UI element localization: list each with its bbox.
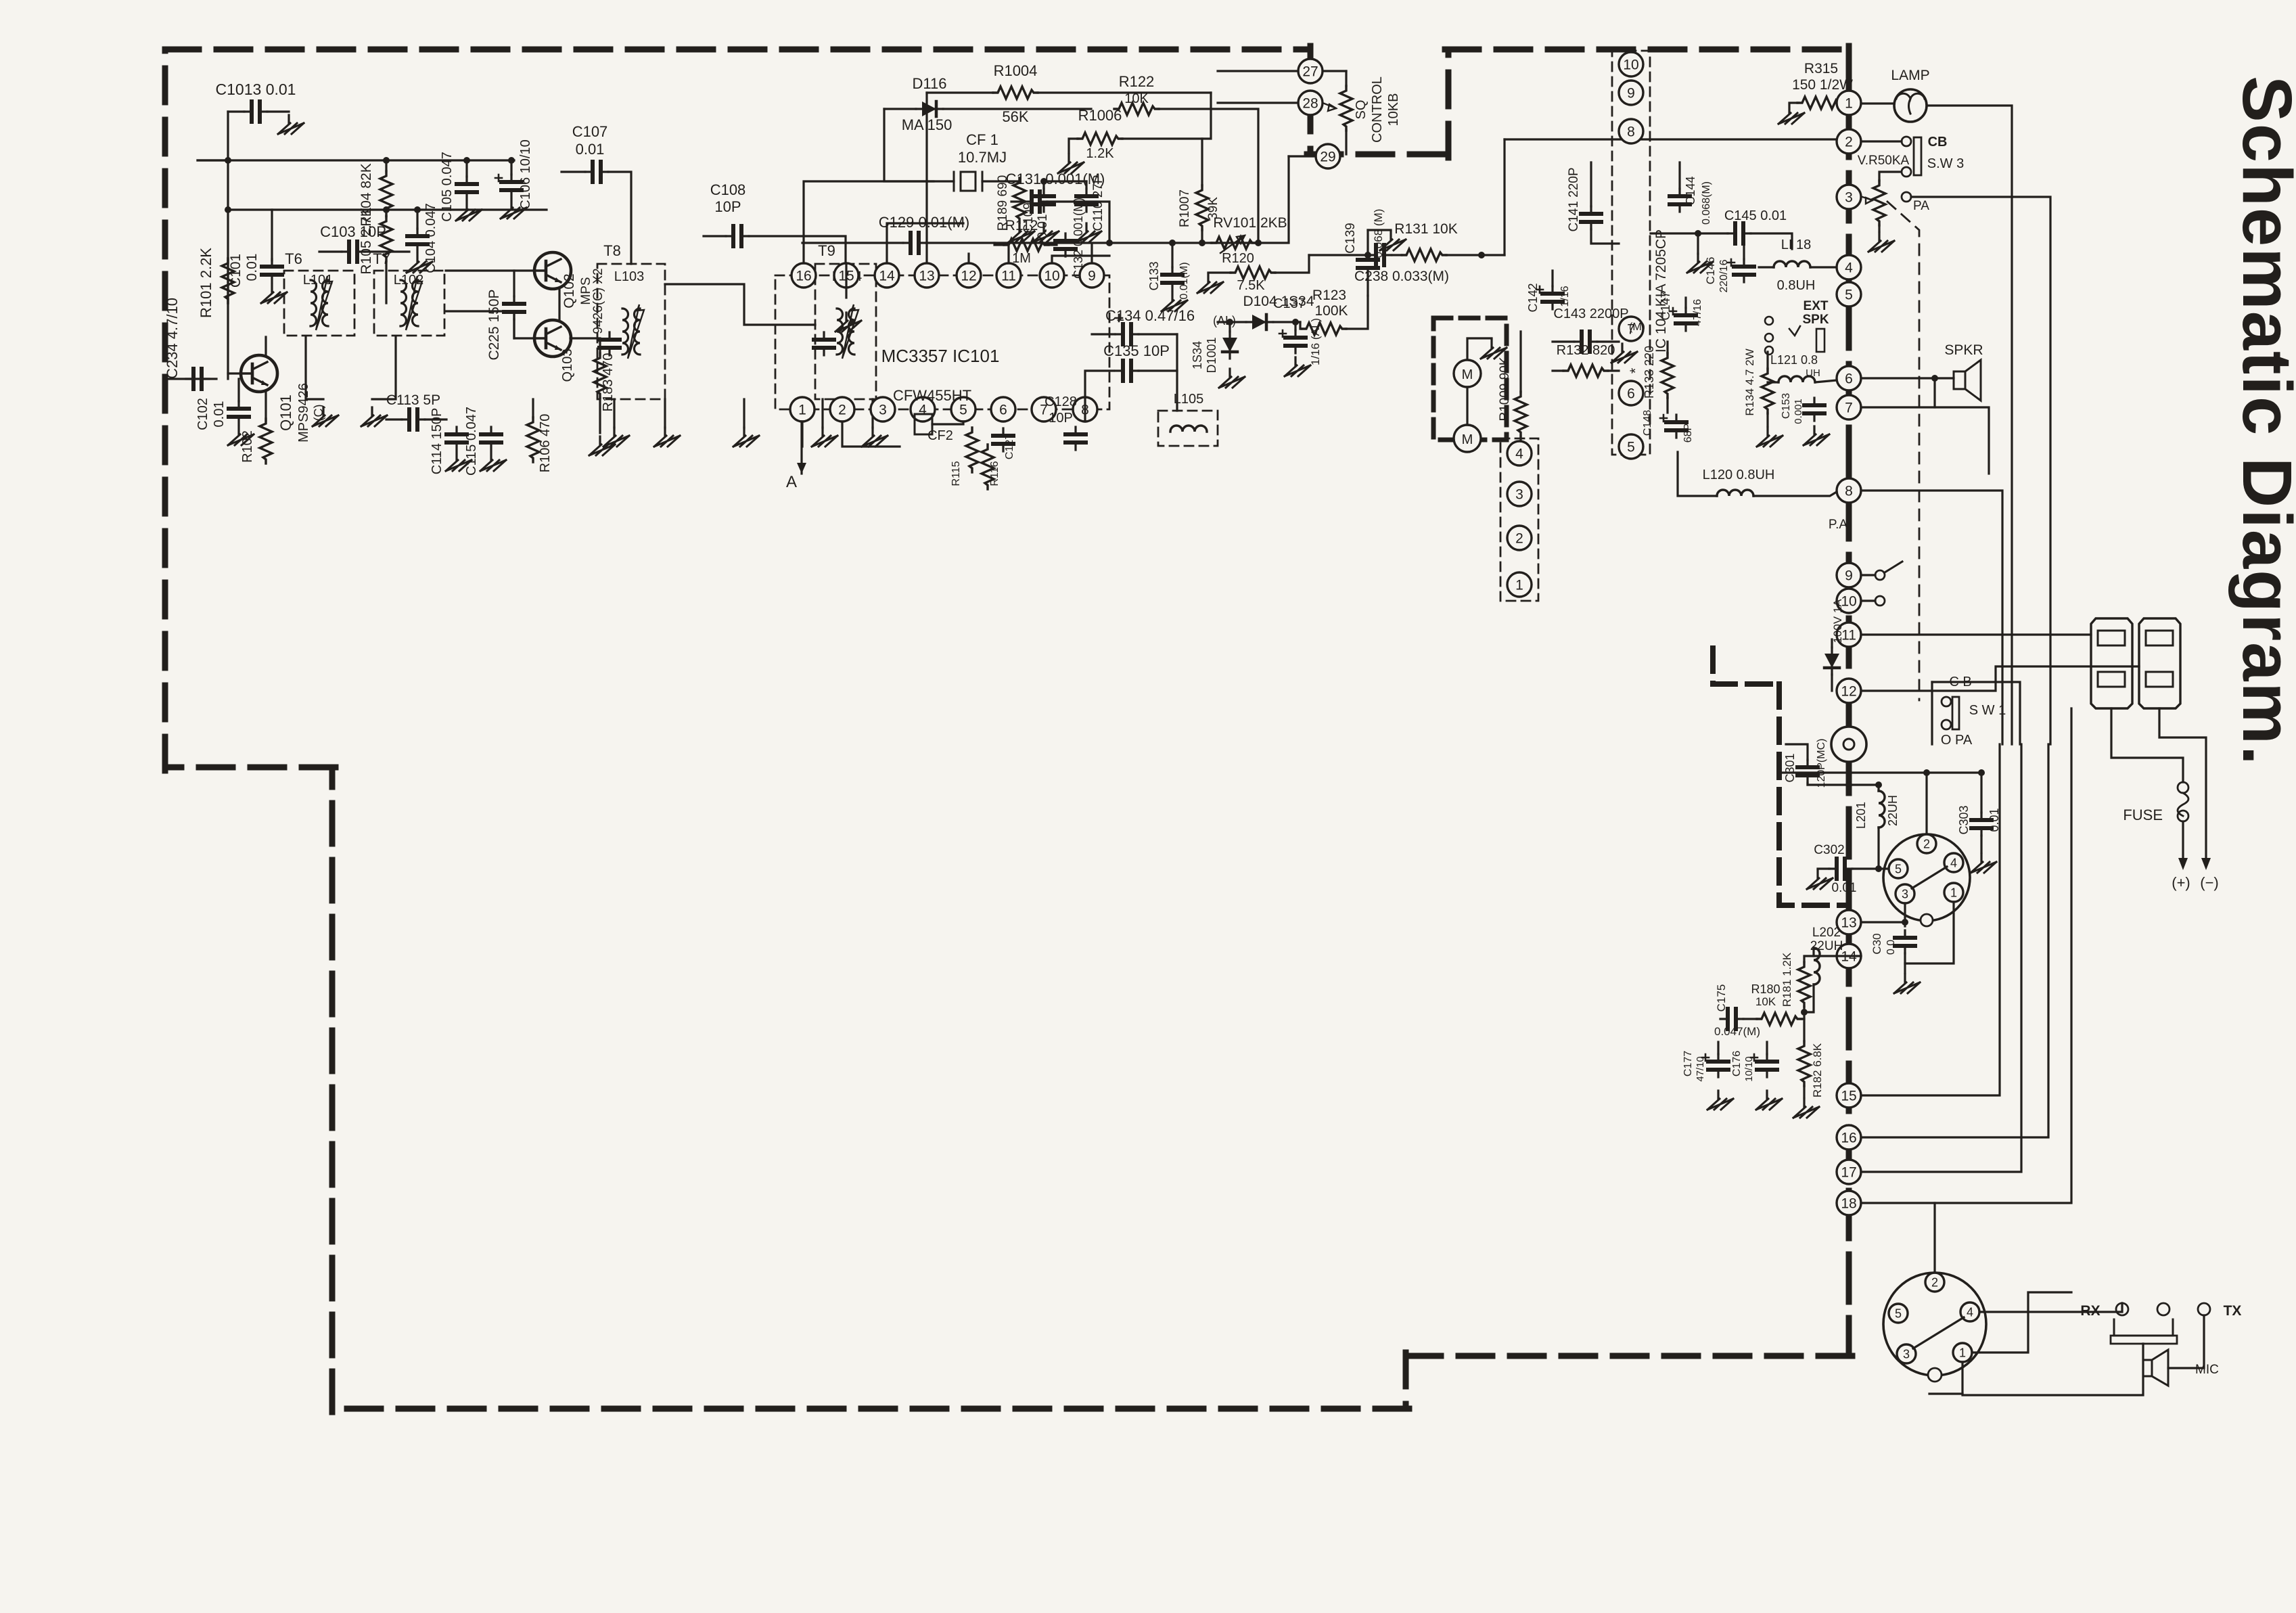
svg-text:MPS9426: MPS9426 xyxy=(296,383,311,442)
wire xyxy=(1345,71,1347,86)
wire xyxy=(1804,956,1814,962)
wire xyxy=(1933,378,1935,407)
wire xyxy=(1806,783,1808,785)
capacitor C109 body xyxy=(1034,189,1054,212)
wire xyxy=(1904,953,1906,973)
junction xyxy=(1978,769,1985,776)
capacitor C1013 body xyxy=(244,101,267,122)
PTT switch bar xyxy=(2114,1319,2173,1336)
wire L121 to 6 xyxy=(1815,380,1837,382)
resistor R106 body xyxy=(527,417,539,462)
connector plug 2 contact a xyxy=(2146,631,2173,645)
svg-text:R1004: R1004 xyxy=(994,62,1038,79)
svg-text:R132 820: R132 820 xyxy=(1557,343,1615,358)
svg-text:L102: L102 xyxy=(394,273,424,288)
svg-text:1: 1 xyxy=(1845,96,1853,112)
wire xyxy=(386,418,402,420)
svg-text:S W 1: S W 1 xyxy=(1969,703,2006,718)
board outline notch bottom xyxy=(1307,152,1448,158)
ground R134 xyxy=(1757,428,1783,447)
capacitor C304 body xyxy=(1895,930,1915,953)
svg-text:14: 14 xyxy=(879,269,895,284)
svg-text:R105 2.7K: R105 2.7K xyxy=(359,207,374,274)
svg-text:C301: C301 xyxy=(1783,753,1797,782)
ground C109 xyxy=(1033,223,1059,242)
svg-text:C141 220P: C141 220P xyxy=(1567,167,1581,231)
wire mic pin2 up xyxy=(1933,1203,1935,1273)
switch gang dashed link xyxy=(1887,202,1919,700)
ground T7 xyxy=(361,407,387,426)
diode D301 body xyxy=(1824,648,1839,675)
power connector pin 4 xyxy=(1944,853,1963,872)
wire to terminal 16 xyxy=(1861,744,2048,1137)
svg-text:PA: PA xyxy=(1913,199,1929,213)
resistor R104 body xyxy=(380,171,392,216)
wire xyxy=(1368,229,1391,231)
IC101 pin 7 xyxy=(1032,397,1056,422)
connector plug 2 shell xyxy=(2139,618,2180,708)
wire R122 to squelch xyxy=(1159,109,1258,243)
capacitor C129 xyxy=(903,233,926,253)
edge terminal 18 xyxy=(1837,1191,1861,1215)
wire from 8 xyxy=(1861,491,2002,744)
svg-text:SPK: SPK xyxy=(1802,313,1829,327)
wire to ground xyxy=(267,110,289,112)
wire xyxy=(1218,70,1298,72)
svg-text:1: 1 xyxy=(798,403,806,418)
svg-text:0.01: 0.01 xyxy=(1832,881,1857,895)
wire xyxy=(513,319,515,338)
board outline top-left run xyxy=(165,47,1310,53)
wire xyxy=(561,171,585,173)
svg-text:C137: C137 xyxy=(1273,296,1306,311)
svg-text:3: 3 xyxy=(1902,887,1908,901)
svg-text:EXT: EXT xyxy=(1804,299,1829,313)
svg-text:C114 150P: C114 150P xyxy=(430,408,444,475)
svg-text:C225 150P: C225 150P xyxy=(486,289,502,360)
svg-text:T6: T6 xyxy=(285,250,302,267)
svg-text:2: 2 xyxy=(1931,1275,1938,1289)
mic connector pin 4 xyxy=(1960,1302,1979,1321)
switch TX contact xyxy=(2198,1303,2210,1315)
electrolytic C147 xyxy=(1676,308,1696,331)
svg-text:8: 8 xyxy=(1845,484,1853,499)
wire xyxy=(1717,1042,1719,1054)
wire xyxy=(1044,180,1086,182)
wire xyxy=(385,160,387,171)
svg-text:RV101 2KB: RV101 2KB xyxy=(1213,215,1287,231)
capacitor C104 body xyxy=(407,229,428,252)
wire to terminal 18 xyxy=(1861,708,2071,1203)
resistor R1007 body xyxy=(1196,185,1208,230)
svg-text:3: 3 xyxy=(1515,487,1523,503)
wire xyxy=(1229,322,1231,332)
junction xyxy=(383,206,390,213)
edge terminal 6 xyxy=(1837,366,1861,390)
svg-text:R101 2.2K: R101 2.2K xyxy=(198,248,214,318)
ground R120 xyxy=(1197,274,1223,293)
svg-text:C101: C101 xyxy=(228,254,244,288)
svg-text:220/16: 220/16 xyxy=(1718,259,1730,292)
IC101 pin 11 xyxy=(996,263,1021,288)
wire xyxy=(994,243,1004,245)
svg-text:3: 3 xyxy=(1903,1347,1910,1361)
wire motor link xyxy=(1466,387,1468,425)
ground C114 xyxy=(446,452,472,471)
svg-text:C145 0.01: C145 0.01 xyxy=(1724,208,1787,223)
capacitor C153 body xyxy=(1804,398,1824,421)
svg-text:L120 0.8UH: L120 0.8UH xyxy=(1703,468,1775,482)
svg-text:10/10: 10/10 xyxy=(1743,1056,1755,1082)
wire Q101 emitter xyxy=(265,391,267,421)
ground C302 xyxy=(1807,870,1833,889)
wire xyxy=(982,180,1019,182)
svg-text:P.A: P.A xyxy=(1829,518,1848,532)
IC104 pin 10 xyxy=(1619,52,1643,76)
wire lamp feed xyxy=(1927,106,2012,744)
selector bar mic 3-4 xyxy=(1913,1317,1964,1348)
wire xyxy=(1300,322,1302,329)
wire T8-T9 xyxy=(665,284,815,325)
resistor R189 body xyxy=(1013,178,1026,223)
IC104 pin 9 xyxy=(1619,81,1643,105)
svg-text:SQ: SQ xyxy=(1354,100,1369,120)
wire xyxy=(1392,254,1402,256)
wire xyxy=(228,110,244,112)
wire xyxy=(1766,352,1768,369)
wire xyxy=(1551,271,1553,286)
power connector pin 1 xyxy=(1944,883,1963,902)
wire xyxy=(1743,245,1745,259)
capacitor C175 xyxy=(1720,1009,1743,1029)
svg-text:6: 6 xyxy=(1627,386,1635,402)
wire C108 to T9 xyxy=(749,236,846,264)
ground IF strip xyxy=(654,428,680,447)
crystal filter CF2 xyxy=(915,414,932,434)
svg-text:10P: 10P xyxy=(1049,411,1073,426)
switch RX contact 10 xyxy=(1875,596,1885,606)
wire xyxy=(1049,244,1057,246)
junction xyxy=(1364,252,1371,258)
wire from terminal 14 xyxy=(1814,948,1861,956)
svg-text:R112: R112 xyxy=(1005,218,1038,233)
jack PA contact xyxy=(1902,192,1911,202)
edge terminal 7 xyxy=(1837,395,1861,419)
svg-text:12: 12 xyxy=(1841,684,1856,700)
IC104 pin 7 xyxy=(1619,317,1643,341)
svg-text:150 1/2W: 150 1/2W xyxy=(1792,77,1853,93)
svg-text:18: 18 xyxy=(1841,1196,1856,1212)
svg-text:CONTROL: CONTROL xyxy=(1370,76,1385,143)
wire xyxy=(425,418,446,420)
wire xyxy=(1201,139,1203,185)
junction xyxy=(1040,178,1047,185)
svg-text:9: 9 xyxy=(1845,568,1853,584)
potentiometer SQ CONTROL body xyxy=(1340,86,1352,131)
svg-text:10K: 10K xyxy=(1755,995,1776,1008)
edge terminal 4 xyxy=(1837,255,1861,279)
capacitor C110 body xyxy=(1076,189,1097,212)
capacitor C115 body xyxy=(481,427,501,450)
ground C153 xyxy=(1804,426,1829,445)
svg-text:S.W 3: S.W 3 xyxy=(1927,156,1964,171)
capacitor C225 body xyxy=(504,296,524,319)
wire motor xyxy=(1467,338,1492,359)
terminal 27 xyxy=(1298,59,1323,83)
wire xyxy=(1085,181,1087,189)
inductor L202 coil xyxy=(1814,948,1820,984)
wire xyxy=(1047,202,1109,243)
wire R120 to bus xyxy=(1275,255,1309,273)
resistor R105 body xyxy=(380,217,392,261)
svg-text:R1007: R1007 xyxy=(1178,189,1192,227)
capacitor C141 body xyxy=(1581,206,1601,229)
wire xyxy=(1038,91,1211,93)
wire to SW3 xyxy=(1861,140,1902,142)
svg-text:C1013 0.01: C1013 0.01 xyxy=(216,81,296,98)
transformer T9 with L104 internal capacitor xyxy=(814,332,834,355)
wire pin14 xyxy=(887,223,963,263)
svg-text:CFW455HT: CFW455HT xyxy=(893,387,971,404)
wire to lamp xyxy=(1861,102,1894,104)
svg-text:13: 13 xyxy=(1841,915,1856,931)
wire to L115 out xyxy=(1786,744,1808,760)
wire to ground xyxy=(871,399,873,428)
svg-text:C115 0.047: C115 0.047 xyxy=(464,407,479,476)
wire SW1 frame left xyxy=(1931,682,1933,744)
junction xyxy=(1845,781,1852,788)
ground R182 xyxy=(1793,1099,1819,1118)
svg-text:1: 1 xyxy=(1515,578,1523,593)
svg-text:FUSE: FUSE xyxy=(2123,806,2163,823)
svg-text:R180: R180 xyxy=(1751,982,1780,996)
wire xyxy=(198,159,228,161)
svg-text:C303: C303 xyxy=(1957,805,1971,834)
edge terminal 8 xyxy=(1837,478,1861,503)
wire xyxy=(1553,369,1563,371)
wire xyxy=(927,91,993,93)
diode D104 body xyxy=(1246,315,1273,330)
wire vertical feed xyxy=(227,112,229,379)
wire xyxy=(1446,254,1505,256)
svg-text:1: 1 xyxy=(1959,1346,1966,1359)
resistor R102 body xyxy=(260,419,272,463)
wire xyxy=(465,160,467,177)
svg-text:12: 12 xyxy=(961,269,976,284)
ground C303 xyxy=(1971,854,1996,873)
wire pin11 xyxy=(1007,245,1009,263)
svg-text:R315: R315 xyxy=(1804,61,1838,76)
fuse xyxy=(2178,782,2188,793)
svg-text:6: 6 xyxy=(1845,371,1853,387)
board outline notch left xyxy=(1308,46,1314,154)
svg-text:A: A xyxy=(786,473,797,491)
switch SW1 PA contact xyxy=(1942,720,1951,729)
svg-text:5: 5 xyxy=(1895,1307,1902,1320)
ground pin15 xyxy=(835,313,861,332)
wire xyxy=(271,210,273,260)
wire xyxy=(385,216,387,217)
capacitor C144 body xyxy=(1670,189,1690,212)
capacitor C139 body xyxy=(1358,252,1378,275)
IC104 pin 4 xyxy=(1507,441,1532,465)
board outline bottom-left run xyxy=(332,1406,1409,1412)
svg-text:5: 5 xyxy=(1627,440,1635,455)
wire xyxy=(532,399,534,417)
capacitor C128 body xyxy=(1065,427,1086,450)
ground R1006 xyxy=(1058,154,1084,173)
ground C304 xyxy=(1894,974,1920,993)
potentiometer RV101 body xyxy=(1212,237,1256,249)
resistor R1006 body xyxy=(1078,133,1122,145)
junction xyxy=(508,157,515,164)
power connector pin 3 xyxy=(1896,884,1914,903)
wire xyxy=(1980,773,1982,813)
svg-text:100V 1A: 100V 1A xyxy=(1831,599,1844,643)
ground IF strip xyxy=(812,428,837,447)
svg-text:10P: 10P xyxy=(714,198,741,215)
svg-text:CB: CB xyxy=(1928,135,1948,150)
capacitor C114 body xyxy=(446,427,467,450)
edge terminal 17 xyxy=(1837,1160,1861,1184)
resistor R131 body xyxy=(1402,249,1446,261)
svg-text:R182 6.8K: R182 6.8K xyxy=(1811,1043,1824,1097)
wire xyxy=(1171,243,1173,267)
ground C115 xyxy=(480,452,506,471)
edge terminal 2 xyxy=(1837,129,1861,154)
svg-text:0.01: 0.01 xyxy=(576,141,605,158)
electrolytic C106 xyxy=(501,175,522,198)
wire L118 to 4 xyxy=(1810,266,1839,268)
wire pot top xyxy=(1879,172,1900,181)
svg-text:68P: 68P xyxy=(1682,424,1694,442)
junction xyxy=(463,157,470,164)
capacitor C234 body xyxy=(186,369,209,389)
wire xyxy=(416,210,418,229)
svg-text:L101: L101 xyxy=(303,273,334,288)
wire from 27 xyxy=(1310,70,1346,72)
board outline left jog xyxy=(165,765,336,771)
wire xyxy=(1139,334,1177,371)
svg-text:Q101: Q101 xyxy=(277,394,294,431)
motor M1 xyxy=(1454,360,1481,387)
wire xyxy=(1697,233,1699,254)
electrolytic C142 xyxy=(1542,286,1563,309)
wire fuse down xyxy=(2182,821,2184,858)
svg-text:R120: R120 xyxy=(1222,251,1254,266)
svg-text:LI 18: LI 18 xyxy=(1781,237,1811,252)
svg-text:6: 6 xyxy=(999,403,1007,418)
wire xyxy=(1211,242,1212,244)
motor M2 xyxy=(1454,425,1481,452)
capacitor C131 xyxy=(1024,191,1047,212)
svg-text:C153: C153 xyxy=(1781,393,1792,419)
IC104 KIA7205CP outline B xyxy=(1500,438,1538,601)
board outline left edge xyxy=(162,49,168,771)
ground C133 xyxy=(1162,292,1187,311)
svg-text:L121 0.8: L121 0.8 xyxy=(1770,353,1818,367)
wire xyxy=(1743,1018,1757,1020)
wire riser to pin 13 xyxy=(925,93,927,263)
wire pin12 xyxy=(967,254,969,263)
resistor R120 body xyxy=(1231,267,1275,279)
svg-text:13: 13 xyxy=(919,269,934,284)
wire SW1 frame xyxy=(1932,682,2020,744)
svg-text:R122: R122 xyxy=(1119,73,1155,90)
wire xyxy=(1519,436,1521,452)
svg-text:C139: C139 xyxy=(1344,223,1358,253)
svg-text:C30: C30 xyxy=(1870,933,1883,954)
svg-text:2: 2 xyxy=(1923,837,1930,850)
board outline top-right run xyxy=(1445,47,1849,53)
svg-text:29: 29 xyxy=(1320,150,1335,165)
power connector pin 2 xyxy=(1917,834,1936,853)
inductor L121 coil xyxy=(1778,376,1815,382)
junction xyxy=(1875,781,1882,788)
wire to L105 xyxy=(1176,371,1178,411)
wire pin16 to CF1 xyxy=(804,181,954,263)
svg-text:Schematic Diagram.: Schematic Diagram. xyxy=(2228,76,2296,767)
wire xyxy=(1678,452,1717,496)
resistor R132 body xyxy=(1563,365,1608,377)
terminal 28 xyxy=(1298,91,1323,115)
capacitor C101 body xyxy=(262,259,282,282)
switch SW3 bar xyxy=(1914,137,1921,175)
wire Q101 base xyxy=(228,372,241,374)
wire to PTT xyxy=(1962,1344,2143,1395)
ground C104 xyxy=(407,254,432,273)
svg-text:T9: T9 xyxy=(818,242,835,259)
svg-text:120P(MC): 120P(MC) xyxy=(1816,739,1827,788)
wire xyxy=(513,271,515,296)
capacitor C301 body xyxy=(1797,760,1818,783)
svg-text:C103 10P: C103 10P xyxy=(320,223,386,240)
svg-text:L201: L201 xyxy=(1854,802,1868,829)
wire L120 to 8 xyxy=(1753,492,1837,496)
wire TX to mic speaker xyxy=(2168,1315,2204,1368)
selector bar 3-4 xyxy=(1912,867,1947,888)
svg-text:0.01: 0.01 xyxy=(244,254,260,281)
svg-text:R181 1.2K: R181 1.2K xyxy=(1781,952,1793,1007)
board outline right bus xyxy=(1846,46,1852,1356)
switch SW3 PA contact xyxy=(1902,167,1911,177)
wire xyxy=(1651,232,1728,234)
wire T7 ground xyxy=(372,337,396,399)
svg-text:16: 16 xyxy=(796,269,811,284)
wire xyxy=(704,235,726,237)
resistor R122 body xyxy=(1114,103,1159,115)
terminal 29 xyxy=(1316,144,1340,168)
transformer T9 with L104 xyxy=(815,264,876,399)
wire xyxy=(1018,178,1020,181)
wire pin2 to CF2 xyxy=(842,422,900,447)
wire xyxy=(1666,398,1668,413)
wire xyxy=(943,108,1091,110)
ground IF strip xyxy=(862,428,888,447)
ground C177 xyxy=(1707,1091,1733,1110)
edge terminal 3 xyxy=(1837,185,1861,209)
svg-text:9426(C) X2: 9426(C) X2 xyxy=(591,268,605,334)
mic connector pin 2 xyxy=(1925,1273,1944,1292)
wire xyxy=(1666,342,1668,353)
wire D116 branch xyxy=(884,109,934,181)
power connector shell xyxy=(1883,834,1970,921)
wire pin3 down xyxy=(1904,903,1906,926)
IC104 pin 1 xyxy=(1507,572,1532,597)
svg-text:27: 27 xyxy=(1302,64,1318,80)
edge terminal 9 xyxy=(1837,563,1861,587)
svg-text:R1009 90K: R1009 90K xyxy=(1498,357,1512,421)
